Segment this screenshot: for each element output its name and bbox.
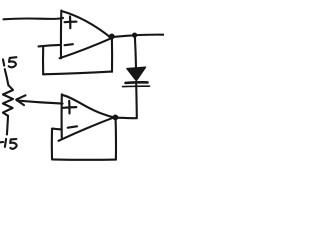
wire diode cathode down to U2 output rail xyxy=(135,85,138,118)
wire U2 feedback loop xyxy=(52,120,116,160)
label +15 (top supply) xyxy=(3,57,16,67)
wire input to U1 + xyxy=(4,18,64,19)
op-amp U1 xyxy=(60,11,111,59)
wire U1 output rail to right edge xyxy=(110,35,165,38)
op-amp U2 xyxy=(59,94,114,141)
wiper arrowhead xyxy=(16,95,25,105)
node output U2 xyxy=(113,115,119,121)
potentiometer R1 xyxy=(3,69,13,134)
wire node to diode anode xyxy=(135,37,136,68)
node output U1 xyxy=(109,34,115,40)
node diode tap xyxy=(132,33,137,38)
wire U1 feedback loop xyxy=(39,39,113,75)
label -15 (bottom supply) xyxy=(0,139,17,149)
diode D1 xyxy=(123,67,150,86)
wire U2 output to diode branch xyxy=(114,117,137,120)
wire wiper to U2 + input xyxy=(17,101,63,104)
